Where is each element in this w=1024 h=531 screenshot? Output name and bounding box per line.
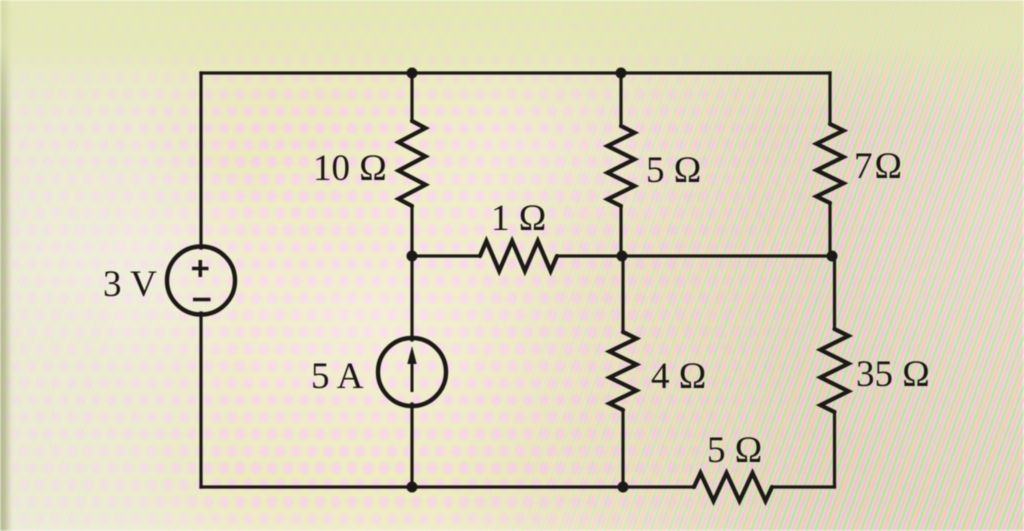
node mid A xyxy=(407,251,418,262)
wire branchA bottom xyxy=(410,404,413,487)
svg-text:5 A: 5 A xyxy=(311,356,364,397)
voltage source 3V xyxy=(167,247,235,315)
node top A xyxy=(407,68,418,79)
svg-text:3 V: 3 V xyxy=(103,264,157,305)
wire right bottom xyxy=(833,412,836,487)
wire bottom left xyxy=(201,485,694,488)
resistor 7 ohm xyxy=(817,124,844,203)
wire branchB mid xyxy=(619,206,622,256)
resistor 10 ohm xyxy=(399,121,426,206)
svg-text:4 Ω: 4 Ω xyxy=(651,356,706,397)
wire middle row xyxy=(412,254,480,257)
wire left upper xyxy=(199,73,202,248)
wire branchB top xyxy=(619,73,622,126)
wire right upper xyxy=(828,73,831,124)
svg-text:5 Ω: 5 Ω xyxy=(707,430,762,471)
wire left lower xyxy=(199,313,202,487)
wire bottom right xyxy=(772,485,835,488)
node mid right xyxy=(827,251,838,262)
current source 5A xyxy=(378,338,446,406)
wire branchB bottom xyxy=(621,410,624,487)
node bottom A xyxy=(407,482,418,493)
arrow of current source xyxy=(407,346,416,392)
node bottom B xyxy=(618,482,629,493)
svg-text:1 Ω: 1 Ω xyxy=(491,198,546,239)
node mid B xyxy=(617,251,628,262)
minus sign xyxy=(193,298,211,302)
svg-text:7Ω: 7Ω xyxy=(854,146,904,187)
wire branchA mid xyxy=(410,206,413,340)
wire middle row right xyxy=(557,254,835,257)
resistor 1 ohm xyxy=(480,241,557,271)
wire right lower xyxy=(833,256,836,329)
wire right mid xyxy=(828,203,831,256)
node top B xyxy=(616,68,627,79)
svg-text:10 Ω: 10 Ω xyxy=(313,148,387,189)
plus sign xyxy=(192,260,209,277)
svg-text:35 Ω: 35 Ω xyxy=(856,354,930,395)
resistor 35 ohm xyxy=(821,329,849,412)
resistor 4 ohm xyxy=(610,332,637,410)
resistor 5 ohm bottom xyxy=(694,473,772,501)
svg-text:5 Ω: 5 Ω xyxy=(646,150,701,191)
wire branchA top xyxy=(410,73,413,121)
wire top xyxy=(201,71,830,74)
wire branchB lower xyxy=(621,256,624,332)
resistor 5 ohm top xyxy=(608,126,635,206)
